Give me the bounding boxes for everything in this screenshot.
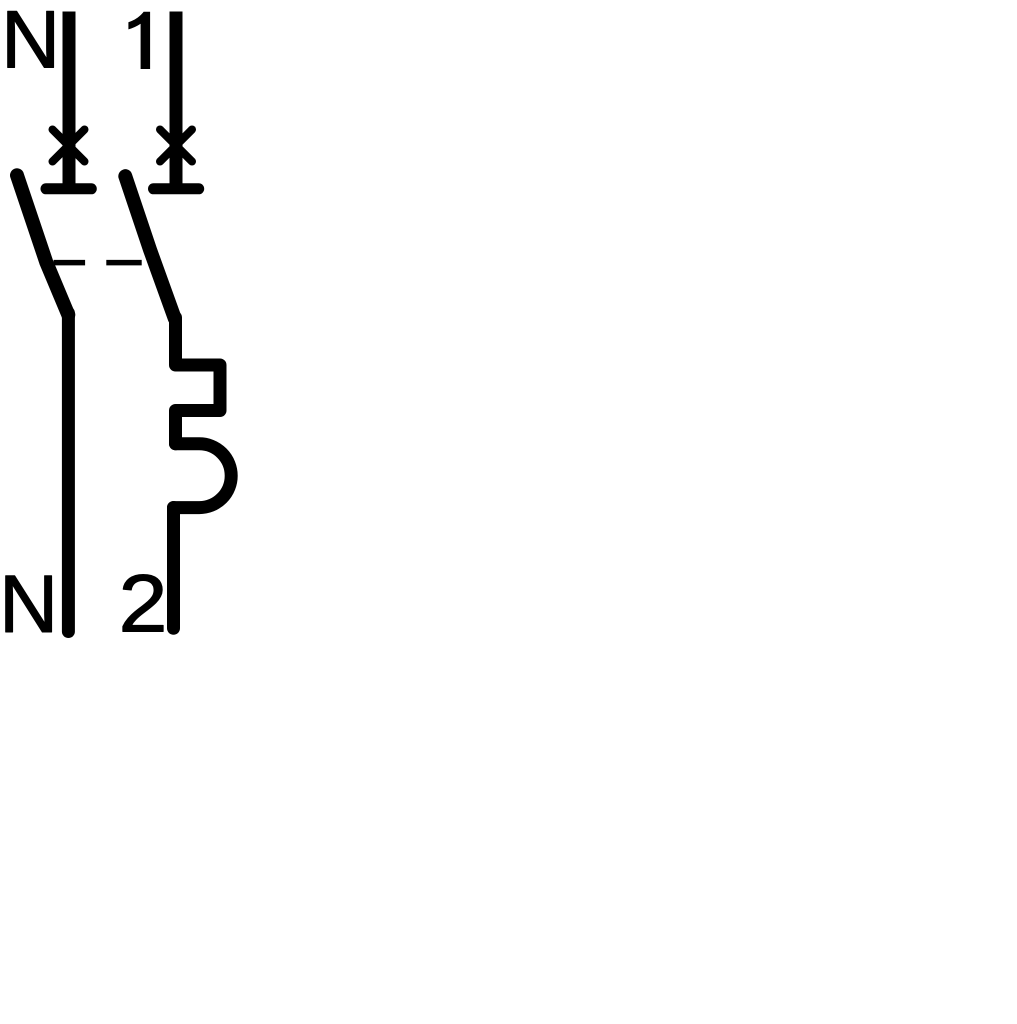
wire: N pole lower conductor (62, 313, 75, 632)
terminal clamp X (phase pole) (160, 130, 192, 162)
magnetic release coil (semicircular detour) (174, 444, 232, 508)
terminal clamp X (N pole) (53, 130, 85, 162)
wire: phase pole top lead (170, 12, 183, 189)
fixed contact bar (N pole) (46, 183, 91, 194)
terminal label 1 (top) (128, 12, 150, 69)
wire to terminal 2 (167, 508, 180, 629)
switch blade (phase pole, open) (125, 176, 175, 318)
fixed contact bar (phase pole) (154, 183, 199, 194)
switch blade (N pole, open) (17, 175, 68, 314)
svg-text:N: N (1, 0, 60, 86)
svg-text:2: 2 (119, 559, 168, 650)
thermal overload release (rectangular detour) (176, 318, 221, 444)
mechanical linkage (dashed) (54, 260, 142, 266)
wire: N pole top lead (63, 12, 76, 189)
svg-text:N: N (0, 559, 58, 650)
